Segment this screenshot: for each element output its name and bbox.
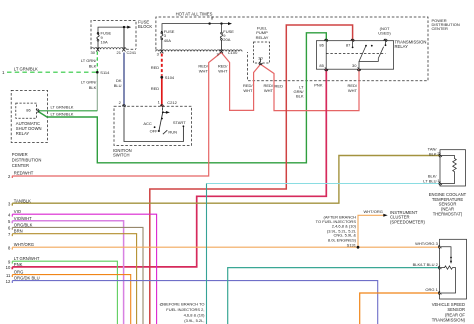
svg-text:VIO: VIO bbox=[14, 209, 22, 214]
wire RED/WHT (fuel pump relay right leg to transmission relay pin 30) bbox=[261, 64, 360, 110]
svg-text:40A: 40A bbox=[164, 38, 171, 43]
svg-text:86: 86 bbox=[319, 43, 324, 48]
wire DK BLU (fuse block C241 to ignition switch pin 2) bbox=[123, 27, 125, 48]
svg-text:@BEFORE BRANCH TO: @BEFORE BRANCH TO bbox=[159, 302, 204, 307]
svg-text:21: 21 bbox=[117, 50, 122, 55]
connector C212 pin 1 (ignition, half circle) bbox=[160, 105, 163, 108]
svg-text:START: START bbox=[173, 120, 186, 125]
svg-text:BLU: BLU bbox=[114, 83, 122, 88]
svg-text:OFF: OFF bbox=[150, 129, 159, 134]
svg-text:PNK: PNK bbox=[14, 262, 23, 267]
svg-text:C100: C100 bbox=[228, 50, 238, 55]
fuse block connector row (scalloped bottom edge) bbox=[91, 48, 126, 50]
svg-text:LT GRN/WHT: LT GRN/WHT bbox=[14, 256, 40, 261]
svg-text:VEHICLE SPEED: VEHICLE SPEED bbox=[432, 302, 465, 307]
connector pin 21 C241 (fuse block, X symbol) bbox=[122, 48, 125, 52]
svg-text:RED: RED bbox=[275, 84, 284, 89]
svg-text:(SPEEDOMETER): (SPEEDOMETER) bbox=[390, 219, 426, 224]
node ACC contact bbox=[154, 126, 156, 128]
svg-text:BLK: BLK bbox=[429, 151, 437, 156]
svg-text:LT GRN/BLK: LT GRN/BLK bbox=[14, 67, 38, 72]
svg-text:BLK: BLK bbox=[89, 85, 97, 90]
node lever top bbox=[162, 111, 164, 113]
wire RED bold dashed (fuse 3 to splice S104) bbox=[161, 54, 163, 76]
svg-text:CENTER: CENTER bbox=[12, 163, 29, 168]
node START contact bbox=[183, 125, 185, 127]
svg-text:12: 12 bbox=[6, 279, 11, 284]
wire LT GRN/BLK (ASD relay to corner at x97) bbox=[38, 110, 97, 112]
transmission relay pin 30 bump bbox=[357, 68, 360, 71]
transmission relay pin 85 bump bbox=[325, 68, 328, 71]
node OFF pivot bbox=[158, 130, 160, 132]
connector pin 3 (C100, X symbol) bbox=[160, 50, 163, 54]
transmission relay pin 86 bump bbox=[325, 39, 328, 42]
node (bus junction at fuse 9) bbox=[220, 22, 222, 24]
svg-text:RED: RED bbox=[151, 86, 160, 91]
svg-text:LT BLU: LT BLU bbox=[423, 178, 436, 183]
engine coolant sensor pin 2 connector bbox=[439, 154, 442, 157]
svg-text:USED): USED) bbox=[378, 30, 391, 35]
svg-text:30: 30 bbox=[352, 63, 357, 68]
svg-text:ORG 1: ORG 1 bbox=[425, 287, 438, 292]
svg-text:TRANSMISSION): TRANSMISSION) bbox=[432, 318, 466, 323]
svg-text:PNK: PNK bbox=[314, 82, 323, 87]
engine coolant sensor pin 1 connector bbox=[439, 182, 442, 185]
wire 9 LT GRN/WHT (left edge, down at x117.4) bbox=[12, 261, 117, 324]
wire LT GRN/BLK pale (S114 down to ASD relay wire) bbox=[96, 72, 98, 111]
svg-text:RELAY: RELAY bbox=[256, 35, 269, 40]
wire 7 BRN (left edge, down at x136.6) bbox=[12, 234, 136, 324]
svg-text:VIO/WHT: VIO/WHT bbox=[14, 216, 32, 221]
splice S114 bbox=[96, 71, 99, 74]
node (bus junction at C241 drop) bbox=[123, 26, 125, 28]
ASD relay pin 86 connector bump bbox=[36, 109, 39, 112]
svg-text:WHT: WHT bbox=[243, 88, 253, 93]
svg-text:WHT: WHT bbox=[218, 69, 228, 74]
svg-text:86: 86 bbox=[26, 107, 31, 112]
wire LT GRN/BLK dashed vertical (fuse block pin 30 down to S114) bbox=[96, 52, 98, 73]
node lever mid bbox=[161, 118, 163, 120]
svg-text:30: 30 bbox=[91, 50, 96, 55]
vehicle speed sensor box bbox=[440, 239, 467, 299]
connector pin 30 (fuse block, X symbol) bbox=[96, 48, 99, 52]
svg-text:POWER: POWER bbox=[12, 152, 28, 157]
svg-text:20A: 20A bbox=[223, 37, 230, 42]
svg-text:WHT/ORG: WHT/ORG bbox=[14, 242, 34, 247]
engine coolant temperature sensor box bbox=[440, 150, 466, 186]
svg-text:ORG/BLK: ORG/BLK bbox=[14, 222, 33, 227]
fuse block bus bar bbox=[98, 27, 128, 33]
svg-text:FUEL INJECTORS 2,: FUEL INJECTORS 2, bbox=[166, 307, 204, 312]
wire 8 WHT/ORG (left edge to S131 to vehicle speed sensor pin 3) bbox=[12, 247, 440, 249]
transmission relay crossbar (dashed) bbox=[326, 53, 385, 55]
svg-text:85: 85 bbox=[319, 63, 324, 68]
svg-text:SENSOR: SENSOR bbox=[447, 307, 465, 312]
wire 5 VIO/WHT (left edge, down at x123.6) bbox=[12, 221, 123, 324]
instrument cluster arrow bbox=[383, 214, 387, 217]
ignition switch dashed box bbox=[114, 106, 192, 145]
wire 11 ORG (left edge, down at x130.7) bbox=[12, 275, 130, 324]
svg-text:C212: C212 bbox=[167, 100, 177, 105]
svg-text:RED: RED bbox=[151, 65, 160, 70]
fuse 3 40A bbox=[161, 32, 163, 49]
connector pin 9 C100 (X symbol) bbox=[220, 50, 223, 54]
connector pin 2 (ignition, half circle) bbox=[122, 105, 125, 108]
svg-text:LT GRN/BLK: LT GRN/BLK bbox=[51, 105, 74, 110]
svg-text:S131: S131 bbox=[347, 242, 357, 247]
transmission relay pin 87 bump bbox=[351, 39, 354, 42]
svg-text:11: 11 bbox=[6, 273, 11, 278]
svg-text:30: 30 bbox=[258, 56, 263, 61]
splice S104 bbox=[160, 76, 163, 79]
wire ORG (vehicle speed sensor pin 1 to bottom) bbox=[360, 293, 440, 324]
wire RED/WHT (fuse 9 right leg to bridge to fuel pump relay) bbox=[221, 53, 260, 111]
svg-text:WHT: WHT bbox=[199, 69, 209, 74]
svg-text:LT GRN/BLK: LT GRN/BLK bbox=[51, 111, 74, 116]
ignition switch internal contacts bbox=[124, 108, 183, 142]
svg-text:SWITCH: SWITCH bbox=[113, 152, 130, 157]
svg-text:10: 10 bbox=[6, 265, 11, 270]
svg-text:WHT: WHT bbox=[348, 88, 358, 93]
svg-text:ORG: ORG bbox=[14, 270, 24, 275]
svg-text:S104: S104 bbox=[165, 75, 175, 80]
fuse 9 20A bbox=[220, 32, 222, 50]
vehicle speed sensor internals bbox=[441, 247, 456, 293]
wire RED (S104 to ignition switch pin 1 C212) bbox=[161, 77, 163, 106]
fuse block dashed box (top-left power distribution) bbox=[91, 21, 136, 50]
wire BLK/LT BLU (vehicle speed sensor pin 2 to bottom) bbox=[228, 268, 440, 324]
svg-text:BLK/LT BLU 2: BLK/LT BLU 2 bbox=[413, 262, 439, 267]
vehicle speed sensor pin 3 connector bbox=[438, 245, 441, 248]
PDC bus bar (HOT AT ALL TIMES) bbox=[162, 24, 228, 32]
vehicle speed sensor pin 2 connector bbox=[438, 266, 441, 269]
wire 6 ORG/BLK (left edge, down at x143) bbox=[12, 227, 143, 324]
svg-text:C241: C241 bbox=[127, 50, 137, 55]
svg-text:87: 87 bbox=[346, 43, 351, 48]
wire LT GRN/BLK (ASD relay to transmission relay pin 86, long run) bbox=[38, 33, 326, 163]
transmission relay pin not-used bump bbox=[384, 39, 387, 42]
vehicle speed sensor pin 1 connector bbox=[438, 291, 441, 294]
svg-text:BLK: BLK bbox=[296, 94, 304, 99]
wire 10 PNK (transmission relay pin 85 down, across, to left edge) bbox=[12, 69, 326, 269]
svg-text:LT GRN/: LT GRN/ bbox=[81, 79, 97, 84]
wire 12 ORG/DK BLU (left edge, down at x377.7) bbox=[12, 281, 377, 324]
svg-text:BLOCK: BLOCK bbox=[138, 24, 152, 29]
transmission relay box bbox=[316, 41, 393, 69]
svg-text:RELAY: RELAY bbox=[395, 44, 409, 49]
svg-text:(REAR OF: (REAR OF bbox=[445, 312, 465, 317]
C100 connector row (scalloped) bbox=[156, 50, 242, 52]
svg-text:THERMOSTAT): THERMOSTAT) bbox=[433, 211, 463, 216]
svg-text:BLK: BLK bbox=[89, 64, 97, 69]
engine coolant sensor internal resistor bbox=[441, 156, 457, 184]
transmission relay contact arms bbox=[353, 41, 386, 69]
wire WHT/ORG branch (S131 up to instrument cluster arrow) bbox=[358, 215, 384, 247]
automatic shut down relay inner dashed box bbox=[16, 103, 37, 118]
HOT AT ALL TIMES tick bbox=[211, 16, 213, 19]
wire 1 LT GRN/BLK dashed (left edge to splice S114) bbox=[7, 71, 97, 73]
wire 3 TAN/BLK (left edge to engine coolant sensor pin 2) bbox=[12, 156, 440, 206]
wire 2 RED/WHT (fuse 9 left leg down and to left edge) bbox=[12, 53, 221, 179]
svg-text:S114: S114 bbox=[100, 70, 110, 75]
svg-text:TAN/BLK: TAN/BLK bbox=[14, 198, 31, 203]
svg-text:RELAY: RELAY bbox=[16, 131, 30, 136]
wire 4 VIO (left edge, down at x156.6) bbox=[12, 214, 156, 324]
ASD power distribution center dashed box (left) bbox=[11, 90, 47, 142]
svg-text:4,6,8 & (10): 4,6,8 & (10) bbox=[184, 313, 206, 318]
fuse 9 10A (fuse block) bbox=[97, 33, 99, 49]
svg-text:HOT AT ALL TIMES: HOT AT ALL TIMES bbox=[176, 12, 213, 17]
svg-text:ACC: ACC bbox=[143, 121, 152, 126]
fuel pump relay dashed box bbox=[254, 42, 270, 63]
splice S131 bbox=[357, 246, 360, 249]
power distribution center dashed box (top center) bbox=[156, 17, 428, 81]
wire BLK/LT BLU (engine coolant sensor pin 1 to bottom) bbox=[207, 183, 441, 185]
svg-text:CENTER: CENTER bbox=[432, 26, 449, 31]
svg-text:WHT: WHT bbox=[264, 88, 274, 93]
svg-text:DISTRIBUTION: DISTRIBUTION bbox=[12, 157, 42, 162]
svg-text:RUN: RUN bbox=[168, 129, 177, 134]
wire RED (transmission relay pin 87 up over and down to bottom) bbox=[150, 25, 353, 324]
svg-text:(3.9L, 5.2L,: (3.9L, 5.2L, bbox=[184, 318, 204, 323]
svg-text:RED/WHT: RED/WHT bbox=[14, 171, 34, 176]
svg-text:BRN: BRN bbox=[14, 229, 23, 234]
svg-text:WHT/ORG 3: WHT/ORG 3 bbox=[415, 241, 438, 246]
svg-text:WHT/ORG: WHT/ORG bbox=[364, 209, 383, 214]
transmission relay coil bbox=[325, 41, 327, 69]
svg-text:ORG/DK BLU: ORG/DK BLU bbox=[14, 276, 40, 281]
svg-text:LT GRN/: LT GRN/ bbox=[81, 58, 97, 63]
svg-text:10A: 10A bbox=[101, 40, 108, 45]
fuel pump relay pin 30 stub and bump bbox=[259, 59, 262, 65]
